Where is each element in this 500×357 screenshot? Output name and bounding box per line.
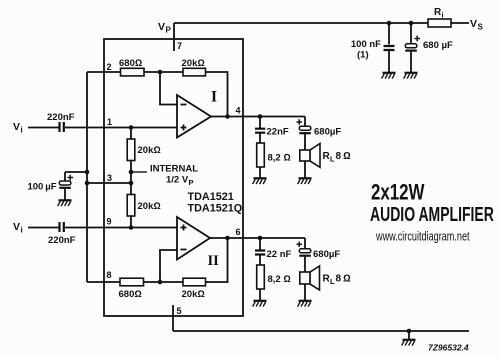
ground under C3: [382, 73, 396, 79]
resistor 20k internal upper: [127, 139, 135, 161]
svg-text:i: i: [21, 126, 23, 135]
svg-text:i: i: [442, 11, 444, 20]
capacitor C1 220nF input channel 1: [60, 122, 64, 132]
capacitor 680uF output channel 1: [297, 117, 311, 151]
wire 680 ohm to 20k channel 2: [144, 281, 184, 283]
capacitor 22nF Zobel channel 2: [255, 238, 265, 265]
label INTERNAL 1/2 Vp: [150, 164, 198, 188]
wire internal bias divider column: [130, 128, 132, 228]
ground under speaker channel 2: [298, 301, 312, 307]
capacitor 680uF output channel 2: [297, 238, 311, 272]
svg-text:8,2 Ω: 8,2 Ω: [268, 274, 291, 285]
svg-text:680Ω: 680Ω: [119, 58, 142, 69]
svg-text:2x12W: 2x12W: [371, 180, 425, 205]
junction feedback on output 2: [225, 236, 230, 241]
ground under Zobel channel 1: [253, 178, 267, 184]
svg-text:6: 6: [236, 227, 241, 237]
svg-text:L: L: [330, 155, 335, 164]
svg-text:20kΩ: 20kΩ: [138, 145, 161, 156]
node Vs label: [470, 18, 484, 32]
junction pin 3 to divider: [129, 181, 134, 186]
op-amp I: [177, 95, 211, 138]
capacitor C2 100uF electrolytic: [59, 172, 73, 200]
junction inverting node channel 2: [158, 280, 163, 285]
svg-text:8 Ω: 8 Ω: [336, 274, 352, 285]
node Vi input channel 1 label: [13, 121, 23, 135]
wire Vp supply rail: [174, 22, 469, 24]
wire pin 3: [87, 182, 131, 184]
node Vp label: [158, 21, 172, 35]
svg-text:20kΩ: 20kΩ: [182, 289, 205, 300]
wire node pointer: [131, 171, 147, 173]
resistor 680 ohm channel 2: [120, 278, 144, 286]
svg-text:P: P: [166, 26, 172, 35]
junction ground rail: [407, 329, 412, 334]
svg-text:22nF: 22nF: [267, 127, 289, 138]
wire pin 2 to feedback bus: [87, 71, 121, 73]
svg-text:5: 5: [177, 306, 182, 316]
capacitor 22nF Zobel channel 1: [255, 117, 265, 144]
wire ground rail: [173, 330, 469, 332]
svg-text:220nF: 220nF: [47, 112, 75, 123]
wire 8.2 ohm to ground: [259, 167, 261, 178]
svg-text:680Ω: 680Ω: [119, 289, 142, 300]
junction on Vp rail at C4: [409, 21, 414, 26]
ground under C4: [404, 73, 418, 79]
label RL 8 ohm: [323, 274, 352, 287]
wire node to inverting input op-amp II: [160, 250, 177, 282]
svg-text:TDA1521: TDA1521: [188, 191, 234, 203]
junction pin 1 to divider: [129, 125, 134, 130]
svg-text:(1): (1): [357, 50, 369, 61]
capacitor C4 680uF supply electrolytic: [405, 23, 420, 72]
capacitor C5 220nF input channel 2: [60, 222, 64, 232]
svg-text:i: i: [21, 226, 23, 235]
svg-text:S: S: [478, 23, 484, 32]
svg-text:3: 3: [107, 173, 112, 183]
wire Vi to C1: [28, 127, 59, 129]
svg-text:I: I: [211, 89, 217, 106]
wire 20k to output channel 2: [206, 238, 228, 282]
wire C2 to feedback bus: [65, 171, 87, 173]
wire feedback bus pins 2-3-8: [86, 72, 88, 282]
svg-text:L: L: [330, 277, 335, 286]
label TDA1521 TDA1521Q: [188, 191, 243, 215]
op-amp II: [177, 217, 210, 260]
resistor 680 ohm channel 1: [121, 68, 145, 76]
svg-text:II: II: [208, 253, 220, 269]
wire 680 ohm to 20k channel 1: [144, 71, 183, 73]
resistor 20k feedback channel 2: [183, 278, 206, 286]
svg-text:7: 7: [177, 41, 182, 51]
svg-text:8,2 Ω: 8,2 Ω: [268, 153, 291, 164]
svg-text:V: V: [13, 121, 20, 133]
svg-text:P: P: [189, 178, 194, 187]
wire C1 to pin 1 non-inverting input: [65, 127, 177, 129]
svg-text:INTERNAL: INTERNAL: [150, 164, 198, 175]
svg-text:www.circuitdiagram.net: www.circuitdiagram.net: [375, 230, 470, 244]
wire speaker to ground channel 2: [304, 284, 306, 300]
svg-text:8 Ω: 8 Ω: [336, 151, 352, 162]
ground under Zobel channel 2: [253, 301, 267, 307]
wire node to inverting input op-amp I: [160, 72, 177, 105]
svg-text:4: 4: [236, 106, 241, 116]
wire output pin 4: [211, 116, 305, 118]
speaker RL channel 1: [300, 144, 320, 168]
node Vi input channel 2 label: [13, 221, 23, 235]
svg-text:2: 2: [107, 62, 112, 72]
capacitor C3 100nF supply decoupling: [384, 23, 395, 72]
wire Vi to C5: [28, 227, 59, 229]
svg-text:100 µF: 100 µF: [27, 182, 56, 193]
ground on rail: [402, 340, 416, 346]
svg-text:100 nF: 100 nF: [351, 39, 381, 50]
svg-text:TDA1521Q: TDA1521Q: [188, 203, 243, 215]
resistor 8.2 ohm Zobel channel 2: [257, 265, 265, 289]
junction pin 3 on feedback bus: [85, 181, 90, 186]
node half-Vp junction: [129, 170, 134, 175]
label 100 nF (1): [351, 39, 381, 61]
svg-text:V: V: [13, 221, 20, 233]
wire C5 to pin 9 non-inverting input: [65, 227, 177, 229]
svg-text:20kΩ: 20kΩ: [182, 58, 205, 69]
junction pin 9 to divider: [129, 225, 134, 230]
wire pin 7 stub: [173, 23, 175, 51]
svg-text:7Z96532.4: 7Z96532.4: [428, 343, 469, 353]
resistor 20k feedback channel 1: [183, 68, 206, 76]
junction Zobel channel 1: [258, 114, 263, 119]
resistor 8.2 ohm Zobel channel 1: [257, 143, 265, 167]
resistor Ri: [428, 19, 451, 27]
IC U1 TDA1521 package outline: [104, 39, 243, 316]
svg-text:V: V: [470, 18, 477, 30]
wire 8.2 ohm to ground channel 2: [259, 289, 261, 300]
wire rail to ground: [408, 331, 410, 339]
ground under C2: [58, 200, 72, 206]
junction feedback on output 1: [225, 114, 230, 119]
svg-text:22 nF: 22 nF: [267, 249, 292, 260]
junction C2 on feedback bus: [85, 170, 90, 175]
svg-text:8: 8: [107, 270, 112, 280]
svg-text:V: V: [158, 21, 165, 33]
speaker RL channel 2: [300, 266, 320, 290]
label RL 8 ohm: [323, 151, 352, 164]
wire 20k to output channel 1: [206, 72, 228, 117]
svg-text:680µF: 680µF: [313, 249, 340, 260]
wire speaker to ground channel 1: [304, 161, 306, 178]
label Ri: [434, 7, 444, 20]
svg-text:1/2 V: 1/2 V: [166, 175, 189, 186]
junction inverting node channel 1: [158, 70, 163, 75]
wire output pin 6: [210, 237, 305, 239]
svg-text:AUDIO AMPLIFIER: AUDIO AMPLIFIER: [370, 202, 494, 225]
wire pin 8 to feedback bus: [87, 281, 120, 283]
svg-text:1: 1: [107, 117, 112, 127]
svg-text:9: 9: [107, 217, 112, 227]
svg-text:680 µF: 680 µF: [423, 40, 453, 51]
junction on Vp rail at C3: [387, 21, 392, 26]
wire pin 5 stub: [172, 305, 174, 331]
junction Zobel channel 2: [258, 236, 263, 241]
ground under speaker channel 1: [298, 178, 312, 184]
resistor 20k internal lower: [127, 195, 135, 217]
svg-text:680µF: 680µF: [314, 127, 341, 138]
svg-text:20kΩ: 20kΩ: [138, 201, 161, 212]
svg-text:220nF: 220nF: [48, 235, 76, 246]
